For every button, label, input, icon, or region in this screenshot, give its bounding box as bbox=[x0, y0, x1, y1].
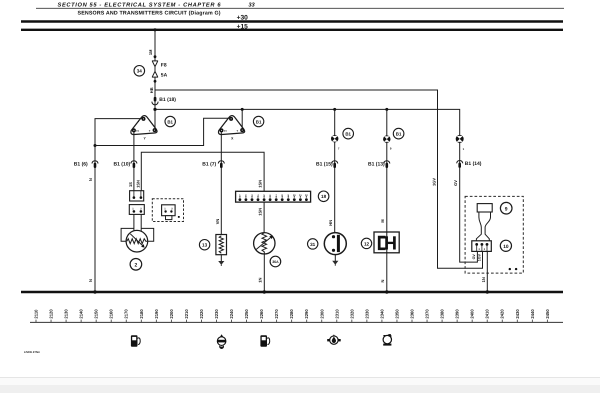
node line A tap bbox=[94, 144, 97, 147]
pin B1(13) symbol bbox=[384, 161, 390, 168]
svg-text:GV: GV bbox=[453, 180, 458, 186]
wire GV drop bbox=[460, 142, 478, 262]
warning ball sensor 3 bbox=[456, 135, 464, 143]
svg-text:2360: 2360 bbox=[410, 309, 415, 319]
location scale line bbox=[30, 321, 563, 323]
svg-text:-: - bbox=[138, 119, 139, 123]
callout 9 bbox=[500, 202, 512, 214]
component callout 34 (fuse box) bbox=[134, 66, 145, 77]
callout 31 bbox=[308, 239, 318, 249]
svg-text:9: 9 bbox=[505, 206, 508, 212]
svg-text:B1 (18): B1 (18) bbox=[159, 97, 176, 103]
svg-text:B1 (15): B1 (15) bbox=[316, 161, 333, 167]
svg-text:2140: 2140 bbox=[79, 309, 84, 319]
svg-text:2390: 2390 bbox=[455, 309, 460, 319]
wire block pin3 to ground (1N) bbox=[486, 251, 488, 291]
svg-text:1SN: 1SN bbox=[257, 208, 262, 216]
svg-text:-: - bbox=[226, 119, 227, 123]
level sensor funnel body bbox=[476, 204, 492, 241]
svg-text:2450: 2450 bbox=[545, 309, 550, 319]
svg-text:2230: 2230 bbox=[214, 309, 219, 319]
callout 12 bbox=[361, 238, 371, 248]
svg-text:2280: 2280 bbox=[289, 309, 294, 319]
resistor 13 bbox=[216, 235, 227, 255]
callout 13 bbox=[199, 240, 209, 250]
svg-text:+15: +15 bbox=[237, 23, 249, 30]
svg-text:2260: 2260 bbox=[259, 309, 264, 319]
connector strip (18) 12-way bbox=[236, 191, 311, 202]
svg-text:X: X bbox=[231, 137, 234, 141]
callout B1 (ball2) bbox=[393, 128, 404, 139]
svg-text:2270: 2270 bbox=[274, 309, 279, 319]
svg-text:2400: 2400 bbox=[470, 309, 475, 319]
wire T1 left terminal 1S drop bbox=[133, 132, 135, 191]
connector half (lower) under T1 bbox=[129, 205, 144, 215]
sensor connector block (3-pin) bbox=[472, 241, 492, 252]
callout B1 (ball1) bbox=[343, 128, 354, 139]
node ball2 tap bbox=[385, 108, 388, 111]
svg-text:D1: D1 bbox=[136, 130, 140, 133]
svg-text:+: + bbox=[236, 129, 238, 133]
wire strip pin5 down to temp gauge bbox=[263, 202, 265, 233]
callout 36A bbox=[270, 256, 281, 267]
svg-text:B1 (10): B1 (10) bbox=[114, 161, 131, 167]
svg-text:D1: D1 bbox=[224, 130, 228, 133]
svg-text:1N: 1N bbox=[258, 278, 263, 283]
svg-text:1GV: 1GV bbox=[478, 253, 482, 261]
transducer triangle X (with B1) bbox=[219, 116, 245, 135]
svg-text:2340: 2340 bbox=[379, 309, 384, 319]
svg-text:2380: 2380 bbox=[440, 309, 445, 319]
svg-text:2190: 2190 bbox=[154, 309, 159, 319]
wire 36A to ground bus (1N) bbox=[263, 254, 265, 291]
svg-text:1SN: 1SN bbox=[136, 180, 141, 188]
callout 2 (fuel sender) bbox=[130, 259, 142, 271]
callout B1 (T2) bbox=[253, 116, 263, 126]
spare connector tag a bbox=[178, 216, 180, 218]
transducer triangle Y (with B1) bbox=[131, 116, 157, 135]
svg-text:1S: 1S bbox=[128, 182, 133, 187]
spare connector A bbox=[162, 205, 176, 220]
resistor 13 ground arrow bbox=[218, 255, 224, 266]
svg-text:18: 18 bbox=[321, 194, 327, 199]
sensor 31 (circle with contact bar) bbox=[324, 233, 346, 255]
svg-text:SECTION 55 - ELECTRICAL SYSTEM: SECTION 55 - ELECTRICAL SYSTEM - CHAPTER… bbox=[58, 2, 222, 8]
callout 18 (connector strip) bbox=[318, 191, 329, 202]
svg-text:2250: 2250 bbox=[244, 309, 249, 319]
svg-text:F8: F8 bbox=[161, 62, 167, 68]
svg-text:1N: 1N bbox=[481, 277, 486, 282]
svg-text:2300: 2300 bbox=[319, 309, 324, 319]
svg-text:B1: B1 bbox=[256, 119, 262, 124]
svg-text:2110: 2110 bbox=[34, 309, 39, 319]
wire switch 12 to ground bus (N) bbox=[386, 253, 388, 291]
pin B1(10) symbol on 1S wire bbox=[131, 161, 137, 168]
pin B1(14) symbol bbox=[457, 161, 463, 168]
icon water in fuel (2380) bbox=[327, 334, 341, 344]
enclosure dots bbox=[509, 268, 511, 270]
resistor zigzag in sender bbox=[127, 239, 147, 244]
node triangle2 + tap bbox=[241, 108, 244, 111]
svg-text:2200: 2200 bbox=[169, 309, 174, 319]
svg-text:B1 (14): B1 (14) bbox=[465, 161, 482, 167]
fuel level sender housing bbox=[121, 228, 154, 241]
wire branch to 1GV (y=90) bbox=[155, 90, 483, 268]
node 1N(right) at bus bbox=[486, 290, 489, 293]
svg-text:B1: B1 bbox=[167, 119, 173, 124]
svg-text:2220: 2220 bbox=[199, 309, 204, 319]
footer page edge bbox=[0, 377, 600, 385]
svg-text:12: 12 bbox=[364, 241, 370, 246]
svg-text:1: 1 bbox=[463, 147, 465, 151]
svg-text:5A: 5A bbox=[161, 72, 168, 78]
fuse F8 bbox=[152, 61, 158, 77]
wire fuse feed from +15 (code 1M / HB) bbox=[154, 30, 156, 61]
dashed enclosure (sensor unit 9/10) bbox=[465, 196, 523, 273]
svg-text:9: 9 bbox=[390, 146, 392, 150]
svg-text:10: 10 bbox=[503, 244, 509, 250]
wire ball2 drop (M) bbox=[386, 109, 388, 232]
node +15 tap bbox=[153, 28, 156, 31]
svg-text:M: M bbox=[380, 219, 385, 223]
svg-text:2150: 2150 bbox=[94, 309, 99, 319]
wire branch y=109.4 to GV bbox=[155, 109, 460, 135]
svg-text:7: 7 bbox=[338, 146, 340, 150]
svg-text:2180: 2180 bbox=[139, 309, 144, 319]
+15 bus bbox=[21, 23, 563, 30]
node N(12) at bus bbox=[385, 290, 388, 293]
svg-text:N: N bbox=[380, 279, 385, 282]
svg-text:2120: 2120 bbox=[49, 309, 54, 319]
svg-text:2290: 2290 bbox=[304, 309, 309, 319]
node below fuse bbox=[154, 80, 157, 83]
svg-text:2310: 2310 bbox=[334, 309, 339, 319]
wire connector to fuel sender (left) bbox=[133, 214, 135, 231]
warning ball sensor 1 bbox=[331, 135, 338, 142]
node 1N at bus bbox=[263, 290, 266, 293]
svg-text:13: 13 bbox=[202, 243, 208, 248]
wire ball1 drop (HN) bbox=[334, 109, 336, 232]
switch 12 (box with [H symbol) bbox=[374, 232, 399, 253]
svg-text:1GV: 1GV bbox=[432, 178, 437, 186]
wire line A to T2 top terminal bbox=[95, 118, 229, 145]
location scale ticks and numbers bbox=[36, 320, 547, 323]
svg-text:2130: 2130 bbox=[64, 309, 69, 319]
svg-text:B1 (6): B1 (6) bbox=[74, 161, 88, 167]
sensor 31 ground arrow bbox=[332, 255, 338, 266]
wire T2 + terminal up bbox=[241, 109, 243, 130]
svg-text:2330: 2330 bbox=[364, 309, 369, 319]
svg-text:36A: 36A bbox=[272, 260, 279, 264]
svg-text:2350: 2350 bbox=[394, 309, 399, 319]
callout 10 bbox=[500, 240, 511, 251]
sender wiper arrow bbox=[130, 234, 144, 248]
wire connector to fuel sender (right) bbox=[140, 214, 142, 231]
pin B1(18) connector symbol bbox=[152, 97, 158, 105]
svg-text:2160: 2160 bbox=[109, 309, 114, 319]
svg-text:2370: 2370 bbox=[425, 309, 430, 319]
svg-text:+30: +30 bbox=[237, 15, 249, 22]
pin B1(6) symbol on N wire bbox=[92, 161, 98, 168]
svg-text:31: 31 bbox=[310, 242, 316, 247]
svg-text:+: + bbox=[149, 129, 151, 133]
svg-text:2170: 2170 bbox=[124, 309, 129, 319]
svg-text:1SN: 1SN bbox=[258, 180, 263, 188]
svg-text:2320: 2320 bbox=[349, 309, 354, 319]
svg-text:N: N bbox=[88, 279, 93, 282]
wire line B (1SN) connector to strip pin5 bbox=[141, 152, 264, 191]
svg-text:SENSORS AND TRANSMITTERS CIRCU: SENSORS AND TRANSMITTERS CIRCUIT (Diagra… bbox=[78, 11, 221, 17]
svg-text:Y: Y bbox=[143, 137, 146, 141]
svg-text:LIVED 4TN4: LIVED 4TN4 bbox=[24, 350, 40, 354]
svg-text:34: 34 bbox=[137, 69, 143, 74]
ground bus bbox=[21, 291, 563, 294]
node N at bus bbox=[93, 290, 96, 293]
svg-text:B1: B1 bbox=[396, 131, 402, 136]
svg-text:2210: 2210 bbox=[184, 309, 189, 319]
warning ball sensor 2 bbox=[383, 135, 390, 142]
svg-text:B1 (7): B1 (7) bbox=[202, 161, 216, 167]
+30 bus bbox=[21, 15, 563, 22]
svg-text:N: N bbox=[88, 178, 93, 181]
header title bbox=[58, 2, 256, 8]
svg-text:2: 2 bbox=[135, 262, 138, 268]
callout B1 (left) bbox=[165, 116, 175, 126]
connector half (upper) under T1 bbox=[130, 191, 144, 201]
svg-text:2440: 2440 bbox=[530, 309, 535, 319]
wire fuse to B1 pin 18 bbox=[154, 77, 156, 130]
header rule bbox=[36, 7, 564, 9]
wire T2 left terminal VN drop bbox=[220, 132, 222, 235]
dashed box spare connector bbox=[152, 199, 183, 222]
icon level float (2300) bbox=[217, 334, 226, 349]
temp sender 36A (variable resistor circle) bbox=[254, 233, 275, 254]
svg-text:B1: B1 bbox=[345, 131, 351, 136]
node branch y=109.4 bbox=[153, 108, 156, 111]
svg-text:GV: GV bbox=[472, 254, 476, 260]
icon fuel pump (2330) bbox=[260, 335, 269, 347]
svg-text:B1 (13): B1 (13) bbox=[368, 161, 385, 167]
svg-text:HN: HN bbox=[328, 220, 333, 226]
svg-text:1M: 1M bbox=[148, 49, 153, 55]
svg-text:2430: 2430 bbox=[515, 309, 520, 319]
svg-text:HB: HB bbox=[149, 87, 154, 93]
rheostat circle (fuel sender) bbox=[126, 230, 148, 252]
node above fuse bbox=[154, 55, 157, 58]
icon oil can (2420) bbox=[383, 334, 391, 346]
svg-text:2420: 2420 bbox=[500, 309, 505, 319]
pin B1(15) symbol bbox=[332, 161, 338, 168]
node ball1 tap bbox=[333, 108, 336, 111]
wire T1 top terminal to N drop bbox=[95, 119, 142, 291]
icon fuel pump (2180) bbox=[131, 335, 140, 347]
svg-text:33: 33 bbox=[248, 2, 255, 8]
svg-text:VN: VN bbox=[215, 219, 220, 225]
svg-text:2240: 2240 bbox=[229, 309, 234, 319]
pin B1(7) symbol on VN wire bbox=[218, 161, 224, 168]
svg-text:2410: 2410 bbox=[485, 309, 490, 319]
